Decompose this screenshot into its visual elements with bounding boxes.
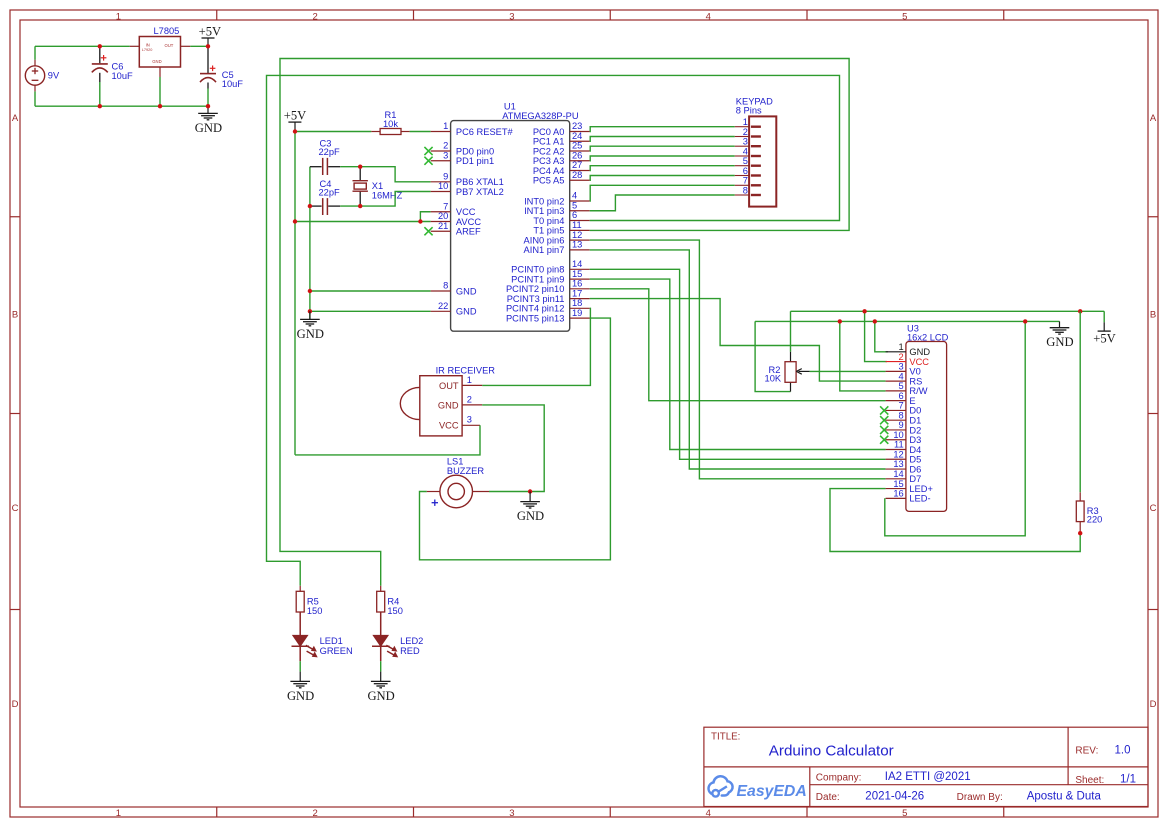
svg-text:GND: GND <box>909 347 930 357</box>
wire R3 to LCD LED+ <box>830 489 1080 552</box>
svg-text:GND: GND <box>367 689 394 703</box>
svg-text:15: 15 <box>572 269 582 279</box>
voltage source 9V <box>25 60 60 92</box>
svg-text:28: 28 <box>572 170 582 180</box>
svg-text:PCINT1 pin9: PCINT1 pin9 <box>511 274 564 284</box>
U1 pin 7 VCC <box>431 201 476 217</box>
wire U1 pin4 to KEYPAD 7 <box>590 185 735 201</box>
svg-text:D2: D2 <box>909 425 921 435</box>
svg-text:D6: D6 <box>909 464 921 474</box>
svg-text:15: 15 <box>893 479 903 489</box>
junction dots +5V rail <box>293 129 423 223</box>
wire U1 pin23 to KEYPAD 1 <box>590 127 735 132</box>
wire 9V bottom rail <box>35 105 208 107</box>
svg-text:150: 150 <box>387 606 403 616</box>
svg-text:6: 6 <box>572 210 577 220</box>
svg-text:4: 4 <box>706 11 711 22</box>
svg-text:150: 150 <box>307 606 323 616</box>
svg-text:PCINT0 pin8: PCINT0 pin8 <box>511 265 564 275</box>
wire R2 top to +5V rail <box>790 311 792 352</box>
svg-text:GND: GND <box>195 121 222 135</box>
svg-text:7: 7 <box>899 401 904 411</box>
U1 pin 25 PC2 A2 <box>533 141 590 157</box>
wire PCINT1 pin9 to LCD D4 <box>590 279 886 449</box>
svg-text:11: 11 <box>572 220 582 230</box>
svg-text:PCINT5 pin13: PCINT5 pin13 <box>506 313 564 323</box>
svg-text:+5V: +5V <box>1093 331 1116 345</box>
svg-text:GND: GND <box>517 509 544 523</box>
U1 pin 9 PB6 XTAL1 <box>431 172 504 188</box>
svg-text:5: 5 <box>902 11 907 22</box>
resistor R4 150 <box>377 586 403 616</box>
U3 pin 5 R/W <box>886 381 928 396</box>
wire U1 pin24 to KEYPAD 2 <box>590 137 735 142</box>
svg-text:A: A <box>12 113 19 124</box>
svg-text:6: 6 <box>743 166 748 176</box>
svg-text:GND: GND <box>152 59 161 64</box>
svg-text:4: 4 <box>706 808 711 819</box>
svg-text:27: 27 <box>572 160 582 170</box>
wire U1 pin27 to KEYPAD 5 <box>590 166 735 171</box>
svg-text:PCINT2 pin10: PCINT2 pin10 <box>506 284 564 294</box>
svg-text:EasyEDA: EasyEDA <box>737 783 807 800</box>
svg-text:4: 4 <box>572 191 577 201</box>
U3 pin 14 D7 <box>886 469 922 484</box>
svg-text:RS: RS <box>909 376 922 386</box>
crystal X1 16MHZ <box>353 168 403 205</box>
svg-text:GND: GND <box>297 327 324 341</box>
svg-text:GND: GND <box>438 400 459 410</box>
svg-text:LED2: LED2 <box>400 636 423 646</box>
wire +5V vertical rail left <box>294 132 296 455</box>
svg-text:Apostu & Duta: Apostu & Duta <box>1027 790 1102 802</box>
U3 pin 10 D3 <box>880 430 921 445</box>
svg-text:1: 1 <box>899 342 904 352</box>
wire 9V source leads <box>34 46 36 106</box>
IR RECEIVER pin 2 GND <box>462 394 482 405</box>
KEYPAD pin 1 <box>735 117 761 127</box>
svg-text:D3: D3 <box>909 435 921 445</box>
junction dot R3 bottom <box>1078 531 1082 535</box>
svg-text:16: 16 <box>572 279 582 289</box>
wire +5V to LCD VCC <box>865 311 887 361</box>
svg-text:1.0: 1.0 <box>1115 745 1131 757</box>
power +5V right <box>1093 311 1116 345</box>
svg-text:LED1: LED1 <box>320 636 343 646</box>
svg-text:1: 1 <box>467 375 472 385</box>
junction dots top rails <box>838 309 1083 324</box>
svg-text:D5: D5 <box>909 455 921 465</box>
svg-text:3: 3 <box>899 362 904 372</box>
junction dots GND rail <box>308 289 312 314</box>
wire U1 pin5 to KEYPAD 8 <box>590 195 735 211</box>
U1 pin 10 PB7 XTAL2 <box>431 181 504 197</box>
wire GND to U1 pin8 <box>310 290 431 292</box>
svg-text:A: A <box>1150 113 1157 124</box>
svg-text:OUT: OUT <box>439 381 459 391</box>
wire +5V rail top right <box>791 310 1105 312</box>
svg-text:7: 7 <box>443 201 448 211</box>
KEYPAD pin 4 <box>735 146 761 156</box>
svg-text:D4: D4 <box>909 445 921 455</box>
svg-text:GND: GND <box>456 286 477 296</box>
LED LED2 RED <box>372 612 423 661</box>
KEYPAD pin 6 <box>735 166 761 176</box>
svg-text:22: 22 <box>438 301 448 311</box>
svg-text:14: 14 <box>572 259 582 269</box>
svg-text:REV:: REV: <box>1075 745 1098 756</box>
svg-text:8: 8 <box>899 410 904 420</box>
svg-text:6: 6 <box>899 391 904 401</box>
wire crystal to pin9 XTAL1 <box>360 167 431 182</box>
svg-text:C6: C6 <box>112 61 124 71</box>
svg-text:26: 26 <box>572 150 582 160</box>
svg-text:VCC: VCC <box>439 421 459 431</box>
svg-text:3: 3 <box>467 415 472 425</box>
U3 pin 4 RS <box>886 371 923 386</box>
svg-text:PB7 XTAL2: PB7 XTAL2 <box>456 187 504 197</box>
U1 pin 16 PCINT2 pin10 <box>506 279 590 295</box>
U3 pin 12 D5 <box>886 449 922 464</box>
svg-text:16x2 LCD: 16x2 LCD <box>907 333 949 343</box>
svg-text:R/W: R/W <box>909 386 927 396</box>
wire LED1 to GND <box>299 661 301 671</box>
svg-text:11: 11 <box>894 440 904 450</box>
junction dots power supply <box>98 44 211 108</box>
capacitor C4 <box>310 179 340 215</box>
ground GND below C5 <box>195 106 222 135</box>
U1 pin 28 PC5 A5 <box>533 170 590 186</box>
IR RECEIVER pin 1 OUT <box>462 375 482 386</box>
svg-text:Arduino Calculator: Arduino Calculator <box>769 742 894 759</box>
U3 pin 11 D4 <box>886 440 922 455</box>
U1 pin 18 PCINT4 pin12 <box>506 298 590 314</box>
svg-text:8: 8 <box>743 185 748 195</box>
svg-text:5: 5 <box>572 200 577 210</box>
junction dots crystal <box>308 165 363 209</box>
svg-text:LED+: LED+ <box>909 484 933 494</box>
svg-text:13: 13 <box>572 240 582 250</box>
svg-text:D: D <box>1150 699 1157 710</box>
svg-text:B: B <box>12 310 18 321</box>
svg-text:10K: 10K <box>765 374 782 384</box>
wire T1 pin5 LED2 net <box>280 59 849 586</box>
U3 pin 6 E <box>886 391 916 406</box>
svg-text:10uF: 10uF <box>112 71 134 81</box>
KEYPAD pin 8 <box>735 185 761 195</box>
power +5V top-left <box>199 24 222 46</box>
U1 pin 1 PC6 RESET# <box>431 121 514 137</box>
svg-text:PC0 A0: PC0 A0 <box>533 127 565 137</box>
wire PCINT0 pin8 to LCD D5 <box>590 269 886 459</box>
svg-text:AIN0 pin6: AIN0 pin6 <box>524 235 565 245</box>
U1 pin 19 PCINT5 pin13 <box>506 308 590 324</box>
svg-text:PC5 A5: PC5 A5 <box>533 176 565 186</box>
U1 pin 5 INT1 pin3 <box>524 200 590 216</box>
U1 pin 20 AVCC <box>431 211 482 227</box>
svg-text:LS1: LS1 <box>447 456 464 466</box>
svg-text:1: 1 <box>443 121 448 131</box>
svg-text:5: 5 <box>902 808 907 819</box>
U1 pin 27 PC4 A4 <box>533 160 590 176</box>
ground GND right <box>1046 321 1073 349</box>
svg-text:PB6 XTAL1: PB6 XTAL1 <box>456 177 504 187</box>
KEYPAD pin 3 <box>735 137 761 147</box>
wire GND to U1 pin22 <box>310 310 431 312</box>
wire PCINT4 pin12 to IR OUT <box>482 308 590 385</box>
U1 pin 23 PC0 A0 <box>533 121 590 137</box>
svg-text:20: 20 <box>438 211 448 221</box>
svg-text:PCINT4 pin12: PCINT4 pin12 <box>506 304 564 314</box>
svg-text:AREF: AREF <box>456 227 481 237</box>
svg-text:22pF: 22pF <box>319 147 341 157</box>
resistor R3 220 <box>1076 492 1102 533</box>
svg-text:V0: V0 <box>909 367 920 377</box>
U1 pin 6 T0 pin4 <box>533 210 589 226</box>
resistor R1 <box>371 110 409 135</box>
svg-text:17: 17 <box>572 288 582 298</box>
svg-text:GND: GND <box>287 689 314 703</box>
ground GND left of U1 <box>297 311 324 341</box>
wire GND rail left of U1 <box>309 167 311 320</box>
svg-text:19: 19 <box>572 308 582 318</box>
svg-text:E: E <box>909 396 915 406</box>
IR RECEIVER pin 3 VCC <box>462 415 480 426</box>
U1 pin 15 PCINT1 pin9 <box>511 269 590 285</box>
svg-text:INT1 pin3: INT1 pin3 <box>524 206 564 216</box>
svg-text:R5: R5 <box>307 596 319 606</box>
svg-text:2: 2 <box>743 127 748 137</box>
svg-text:B: B <box>1150 310 1156 321</box>
wire PCINT3 pin11 to LCD RS <box>590 299 886 382</box>
wire +5V rail to R3 <box>1079 311 1081 492</box>
power +5V above U1 <box>284 109 307 132</box>
svg-text:2: 2 <box>899 352 904 362</box>
wire IR VCC to +5V rail <box>295 425 480 455</box>
svg-text:D: D <box>12 699 19 710</box>
svg-text:3: 3 <box>509 808 514 819</box>
U1 pin 14 PCINT0 pin8 <box>511 259 590 275</box>
svg-text:C: C <box>1150 503 1157 514</box>
U1 pin 26 PC3 A3 <box>533 150 590 166</box>
KEYPAD pin 5 <box>735 156 761 166</box>
U1 pin 4 INT0 pin2 <box>524 191 590 207</box>
svg-text:2021-04-26: 2021-04-26 <box>865 790 924 802</box>
svg-text:INT0 pin2: INT0 pin2 <box>524 196 564 206</box>
wire IR GND to buzzer GND <box>482 405 544 492</box>
EasyEDA logo <box>709 776 807 800</box>
svg-text:GND: GND <box>1046 335 1073 349</box>
capacitor C5 <box>200 48 243 107</box>
svg-text:IA2 ETTI @2021: IA2 ETTI @2021 <box>885 771 971 783</box>
svg-text:9: 9 <box>443 172 448 182</box>
svg-text:D7: D7 <box>909 474 921 484</box>
U3 pin 1 GND <box>886 342 931 357</box>
svg-text:4: 4 <box>899 371 904 381</box>
svg-text:22pF: 22pF <box>319 188 341 198</box>
wire VCC jog <box>420 212 430 222</box>
svg-text:2: 2 <box>467 394 472 404</box>
U3 pin 16 LED- <box>886 489 931 504</box>
wire L7805 gnd down <box>159 77 161 106</box>
svg-text:25: 25 <box>572 141 582 151</box>
wire PCINT2 pin10 to LCD E <box>590 289 886 401</box>
capacitor C3 <box>310 138 340 175</box>
svg-text:12: 12 <box>893 449 903 459</box>
wire GND to LCD pin1 <box>875 321 888 351</box>
svg-text:13: 13 <box>893 459 903 469</box>
KEYPAD pin 2 <box>735 127 761 137</box>
U3 pin 2 VCC <box>886 352 930 367</box>
wire R2 wiper to LCD V0 <box>810 370 886 372</box>
potentiometer R2 10K <box>765 352 810 392</box>
wire +5V to R1 <box>295 131 371 133</box>
U1 pin 12 AIN0 pin6 <box>524 230 590 246</box>
ic U1 ATMEGA328P-PU <box>451 102 579 332</box>
KEYPAD pin 7 <box>735 176 761 186</box>
LED LED1 GREEN <box>292 612 353 661</box>
wire LCD LED- to GND rail <box>885 321 1025 535</box>
svg-text:1: 1 <box>116 11 121 22</box>
svg-text:PD1 pin1: PD1 pin1 <box>456 156 494 166</box>
U3 pin 8 D1 <box>880 410 921 425</box>
svg-text:Sheet:: Sheet: <box>1075 775 1104 786</box>
svg-text:8: 8 <box>443 281 448 291</box>
svg-text:PD0 pin0: PD0 pin0 <box>456 146 494 156</box>
svg-text:8 Pins: 8 Pins <box>736 106 762 116</box>
svg-text:PC6 RESET#: PC6 RESET# <box>456 127 514 137</box>
svg-text:18: 18 <box>572 298 582 308</box>
wire AIN1 pin7 to LCD D6 <box>590 250 886 469</box>
svg-text:AVCC: AVCC <box>456 217 481 227</box>
svg-text:3: 3 <box>509 11 514 22</box>
svg-text:GREEN: GREEN <box>320 646 353 656</box>
svg-text:IN: IN <box>146 43 150 48</box>
svg-text:IR RECEIVER: IR RECEIVER <box>436 365 496 375</box>
svg-text:3: 3 <box>443 150 448 160</box>
wire GND to LCD RW <box>840 321 886 391</box>
regulator U? L7805 <box>130 26 191 77</box>
U1 pin 8 GND <box>431 281 477 297</box>
svg-text:9V: 9V <box>48 71 60 81</box>
U1 pin 3 PD1 pin1 <box>424 150 494 166</box>
U1 pin 22 GND <box>431 301 477 317</box>
svg-text:C: C <box>12 503 19 514</box>
svg-text:220: 220 <box>1087 515 1103 525</box>
U1 pin 11 T1 pin5 <box>533 220 589 236</box>
svg-text:5: 5 <box>899 381 904 391</box>
svg-text:T1 pin5: T1 pin5 <box>533 226 564 236</box>
title block <box>704 727 1148 806</box>
svg-text:D0: D0 <box>909 406 921 416</box>
ground GND below LED2 <box>367 672 394 703</box>
wire AVCC +5V <box>295 221 431 223</box>
wire LED2 to GND <box>380 661 382 671</box>
wire R2 bottom to GND rail <box>755 321 790 391</box>
ground GND below LED1 <box>287 672 314 703</box>
svg-text:7: 7 <box>743 176 748 186</box>
svg-text:21: 21 <box>438 221 448 231</box>
svg-text:1: 1 <box>116 808 121 819</box>
wire L7805 out to +5V <box>190 45 208 47</box>
U1 pin 2 PD0 pin0 <box>424 141 494 157</box>
svg-text:2: 2 <box>312 11 317 22</box>
svg-text:+5V: +5V <box>284 109 307 123</box>
U1 pin 13 AIN1 pin7 <box>524 240 590 256</box>
U3 pin 7 D0 <box>880 401 921 416</box>
wire C4 to crystal node <box>340 205 360 207</box>
svg-text:9: 9 <box>899 420 904 430</box>
svg-text:GND: GND <box>456 307 477 317</box>
svg-text:PC4 A4: PC4 A4 <box>533 166 565 176</box>
svg-text:VCC: VCC <box>456 207 476 217</box>
wire C3 to crystal node <box>340 166 360 168</box>
connector KEYPAD 8 Pins <box>736 97 777 207</box>
wire 9V top rail <box>35 45 130 47</box>
U3 pin 13 D6 <box>886 459 922 474</box>
svg-text:23: 23 <box>572 121 582 131</box>
wire R1 to U1 pin1 <box>410 131 431 133</box>
buzzer LS1 <box>427 456 489 508</box>
svg-text:TITLE:: TITLE: <box>711 731 740 742</box>
U3 pin 9 D2 <box>880 420 921 435</box>
svg-text:14: 14 <box>893 469 903 479</box>
svg-text:LED-: LED- <box>909 494 930 504</box>
svg-text:T0 pin4: T0 pin4 <box>533 216 564 226</box>
wire U1 pin25 to KEYPAD 3 <box>590 146 735 151</box>
svg-text:2: 2 <box>443 141 448 151</box>
wire GND rail top right <box>755 320 1059 322</box>
svg-text:D1: D1 <box>909 415 921 425</box>
svg-text:RED: RED <box>400 646 420 656</box>
wire T0 pin4 LED1 net <box>267 75 840 585</box>
svg-text:BUZZER: BUZZER <box>447 466 484 476</box>
U3 pin 3 V0 <box>886 362 921 377</box>
svg-text:Company:: Company: <box>816 772 862 783</box>
svg-text:3: 3 <box>743 137 748 147</box>
svg-text:ATMEGA328P-PU: ATMEGA328P-PU <box>502 111 578 121</box>
svg-text:PC2 A2: PC2 A2 <box>533 146 565 156</box>
svg-text:PCINT3 pin11: PCINT3 pin11 <box>507 294 565 304</box>
U1 pin 21 AREF <box>424 221 481 237</box>
svg-text:VCC: VCC <box>909 357 929 367</box>
svg-text:OUT: OUT <box>165 43 174 48</box>
svg-text:L7805: L7805 <box>154 26 180 36</box>
svg-text:+5V: +5V <box>199 24 222 38</box>
svg-text:10: 10 <box>438 181 448 191</box>
svg-text:L7920: L7920 <box>142 48 153 52</box>
U1 pin 17 PCINT3 pin11 <box>507 288 590 304</box>
wire U1 pin26 to KEYPAD 4 <box>590 156 735 161</box>
ground GND at buzzer <box>517 489 544 523</box>
svg-text:10: 10 <box>893 430 903 440</box>
svg-text:1: 1 <box>743 117 748 127</box>
ic IR RECEIVER <box>400 365 495 436</box>
svg-text:4: 4 <box>743 146 748 156</box>
ic U3 16x2 LCD <box>906 323 949 511</box>
U3 pin 15 LED+ <box>886 479 933 494</box>
svg-text:AIN1 pin7: AIN1 pin7 <box>524 245 565 255</box>
svg-text:10k: 10k <box>383 119 398 129</box>
wire AIN0 pin6 to LCD D7 <box>590 240 886 479</box>
svg-text:5: 5 <box>743 156 748 166</box>
wire U1 pin28 to KEYPAD 6 <box>590 176 735 181</box>
svg-text:16: 16 <box>893 489 903 499</box>
svg-text:Date:: Date: <box>816 792 840 803</box>
svg-text:10uF: 10uF <box>222 79 244 89</box>
svg-text:Drawn By:: Drawn By: <box>957 792 1003 803</box>
svg-text:1/1: 1/1 <box>1120 774 1136 786</box>
